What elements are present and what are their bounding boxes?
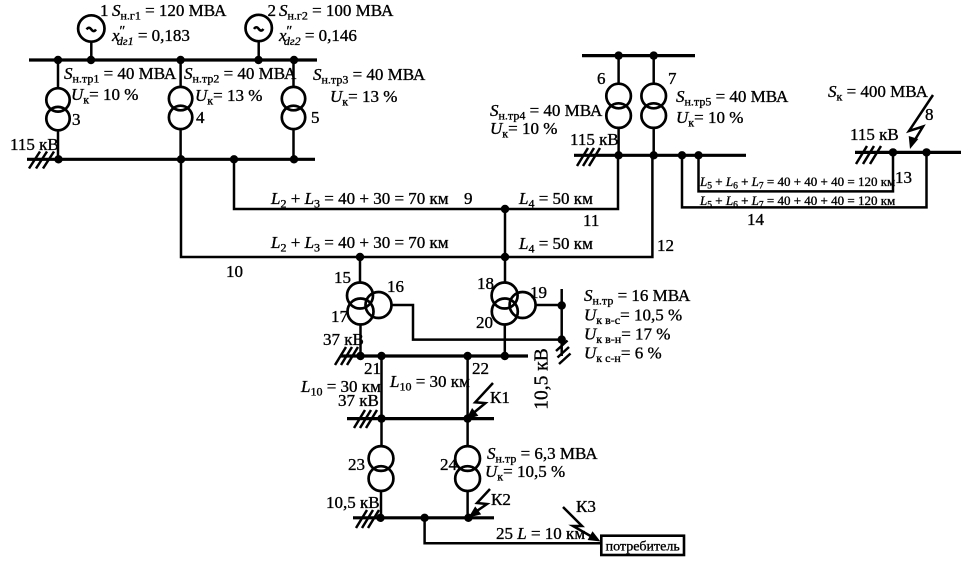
consumer box <box>601 536 684 555</box>
lightning fault 8 <box>909 95 933 149</box>
node: line21 bottom <box>377 414 385 422</box>
transformer T24 <box>455 419 480 518</box>
bus 37kV lower <box>347 417 494 420</box>
wire LV vertical 10.5kV <box>560 289 563 356</box>
bus 115kV middle <box>574 154 746 157</box>
node: G1 tap <box>87 56 95 64</box>
svg-text:Sн.г2 = 100 МВА: Sн.г2 = 100 МВА <box>279 1 394 23</box>
svg-text:115 кВ: 115 кВ <box>10 135 59 154</box>
transformer T18-19-20 (three-winding) <box>492 257 536 356</box>
node: line21 top <box>377 352 385 360</box>
node: T19 LV <box>558 301 566 309</box>
svg-text:Sк = 400 МВА: Sк = 400 МВА <box>828 82 929 104</box>
svg-text:115 кВ: 115 кВ <box>850 125 899 144</box>
svg-text:4: 4 <box>196 108 205 127</box>
svg-text:Sн.тр1 = 40 МВА: Sн.тр1 = 40 МВА <box>64 64 177 86</box>
node: T24 bottom (K2) <box>464 514 472 522</box>
svg-text:10,5 кВ: 10,5 кВ <box>532 348 553 409</box>
node: T16 LV <box>558 335 566 343</box>
svg-text:15: 15 <box>334 268 351 287</box>
svg-text:Sн.тр2 = 40 МВА: Sн.тр2 = 40 МВА <box>184 64 297 86</box>
wire line 22 <box>466 356 469 419</box>
svg-text:2: 2 <box>268 1 277 20</box>
lightning fault K1 <box>466 383 493 420</box>
svg-text:37 кВ: 37 кВ <box>323 330 364 349</box>
svg-text:16: 16 <box>387 277 404 296</box>
node: line14 tap <box>678 151 686 159</box>
wire line 14 <box>682 152 927 207</box>
svg-text:25 L = 10 км: 25 L = 10 км <box>496 524 585 543</box>
svg-text:К2: К2 <box>491 490 511 509</box>
ground (10.5kV LV) <box>556 341 571 365</box>
transformer T23 <box>369 419 394 518</box>
ground (middle 115kV bus) <box>577 148 600 166</box>
svg-text:L4 = 50 км: L4 = 50 км <box>518 234 593 256</box>
svg-text:x″dг1 = 0,183: x″dг1 = 0,183 <box>111 24 190 48</box>
wire T19 to LV node <box>536 304 562 307</box>
transformer T6 <box>606 56 631 156</box>
svg-text:потребитель: потребитель <box>606 540 680 555</box>
node: T3 tap <box>54 56 62 64</box>
node: T18 tap <box>501 253 509 261</box>
wire line 21 <box>380 356 383 419</box>
node: T5 bottom <box>290 155 298 163</box>
svg-text:20: 20 <box>476 313 493 332</box>
generator G2 <box>246 15 272 60</box>
wire T16 to LV node <box>392 305 562 340</box>
svg-text:22: 22 <box>472 359 489 378</box>
node: T5 tap <box>290 56 298 64</box>
node: line22 bottom (K1) <box>463 414 471 422</box>
svg-text:19: 19 <box>530 283 547 302</box>
node: G2 tap <box>254 56 262 64</box>
ground (right 115kV bus) <box>856 146 881 164</box>
node: line9 tap <box>230 155 238 163</box>
svg-text:L2 + L3 = 40 + 30 = 70 км: L2 + L3 = 40 + 30 = 70 км <box>270 189 449 211</box>
node: T7 bottom <box>650 151 658 159</box>
svg-text:Uк= 13 %: Uк= 13 % <box>330 87 397 109</box>
node: T17 bottom <box>356 352 364 360</box>
svg-text:L4 = 50 км: L4 = 50 км <box>518 189 593 211</box>
node: T23 bottom <box>376 514 384 522</box>
svg-text:23: 23 <box>348 455 365 474</box>
wire line 10 <box>181 155 652 257</box>
svg-text:Sн.г1 = 120 МВА: Sн.г1 = 120 МВА <box>112 1 227 23</box>
node: line14 right <box>922 148 930 156</box>
node: line10 tap <box>177 155 185 163</box>
svg-text:10: 10 <box>226 262 243 281</box>
svg-text:L10 = 30 км: L10 = 30 км <box>389 372 470 394</box>
ground (37kV bus lower) <box>354 410 377 428</box>
svg-text:К3: К3 <box>576 497 596 516</box>
bus 115kV left <box>27 158 315 161</box>
svg-text:1: 1 <box>100 1 109 20</box>
svg-text:21: 21 <box>364 359 381 378</box>
node: T6 bottom <box>614 151 622 159</box>
svg-text:11: 11 <box>583 211 599 230</box>
bus 10.5kV bottom <box>353 516 494 519</box>
svg-text:Uк= 13 %: Uк= 13 % <box>195 86 262 108</box>
node: T3 bottom <box>54 155 62 163</box>
transformer T7 <box>641 56 666 156</box>
node: T7 top <box>650 51 658 59</box>
svg-text:14: 14 <box>747 210 765 229</box>
node: T6 top <box>614 51 622 59</box>
transformer T15-16-17 (three-winding) <box>347 257 392 356</box>
svg-text:Uк с-н= 6 %: Uк с-н= 6 % <box>584 344 662 366</box>
svg-text:12: 12 <box>657 236 674 255</box>
svg-text:L5 + L6 + L7 = 40 + 40 + 40 =: L5 + L6 + L7 = 40 + 40 + 40 = 120 км <box>699 193 895 211</box>
svg-text:Sн.тр5 = 40 МВА: Sн.тр5 = 40 МВА <box>676 87 789 109</box>
svg-text:Sн.тр = 16 МВА: Sн.тр = 16 МВА <box>584 286 691 308</box>
svg-text:13: 13 <box>895 168 912 187</box>
node: T15 tap <box>356 253 364 261</box>
transformer T3 <box>46 60 69 159</box>
svg-text:Uк= 10 %: Uк= 10 % <box>490 119 557 141</box>
wire line 9 <box>234 155 618 209</box>
svg-text:Uк= 10 %: Uк= 10 % <box>71 85 138 107</box>
ground (left 115kV bus) <box>29 152 54 169</box>
node: line25 tap <box>420 514 428 522</box>
node: line9/line12 junction <box>501 205 509 213</box>
generator bus (top left) <box>29 58 317 61</box>
wire line 25 <box>425 518 601 544</box>
svg-text:18: 18 <box>477 274 494 293</box>
svg-text:10,5 кВ: 10,5 кВ <box>326 493 380 512</box>
svg-text:9: 9 <box>464 189 473 208</box>
bus top middle <box>582 54 695 57</box>
node: T20 bottom <box>501 352 509 360</box>
lightning fault K2 <box>469 489 491 518</box>
node: line13 right <box>889 148 897 156</box>
svg-text:5: 5 <box>311 108 320 127</box>
svg-text:x″dг2 = 0,146: x″dг2 = 0,146 <box>278 24 357 48</box>
transformer T5 <box>282 60 305 159</box>
svg-text:L5 + L6 + L7 = 40 + 40 + 40 =: L5 + L6 + L7 = 40 + 40 + 40 = 120 км <box>699 174 895 192</box>
generator G1 <box>78 15 104 60</box>
node: T4 tap <box>176 56 184 64</box>
svg-text:L2 + L3 = 40 + 30 = 70 км: L2 + L3 = 40 + 30 = 70 км <box>270 233 449 255</box>
node: line22 top <box>463 352 471 360</box>
svg-text:24: 24 <box>440 455 458 474</box>
svg-text:Uк= 10 %: Uк= 10 % <box>676 108 743 130</box>
transformer T4 <box>169 60 192 159</box>
node: line13 tap <box>694 151 702 159</box>
bus 115kV right <box>855 151 961 154</box>
svg-text:115 кВ: 115 кВ <box>570 130 619 149</box>
svg-text:37 кВ: 37 кВ <box>338 391 379 410</box>
ground (10.5kV bus bottom) <box>356 510 379 528</box>
svg-text:8: 8 <box>925 105 934 124</box>
bus 37kV upper <box>340 354 528 357</box>
wire junction to line 10 <box>504 209 507 257</box>
wire line 13 <box>699 152 894 191</box>
svg-text:Sн.тр3 = 40 МВА: Sн.тр3 = 40 МВА <box>313 65 426 87</box>
svg-text:7: 7 <box>668 69 677 88</box>
svg-text:17: 17 <box>331 307 349 326</box>
svg-text:3: 3 <box>72 110 81 129</box>
svg-text:Uк= 10,5 %: Uк= 10,5 % <box>485 462 565 484</box>
ground (37kV bus upper) <box>335 347 358 365</box>
svg-text:6: 6 <box>597 69 606 88</box>
svg-text:К1: К1 <box>490 388 510 407</box>
lightning fault K3 <box>563 507 601 542</box>
